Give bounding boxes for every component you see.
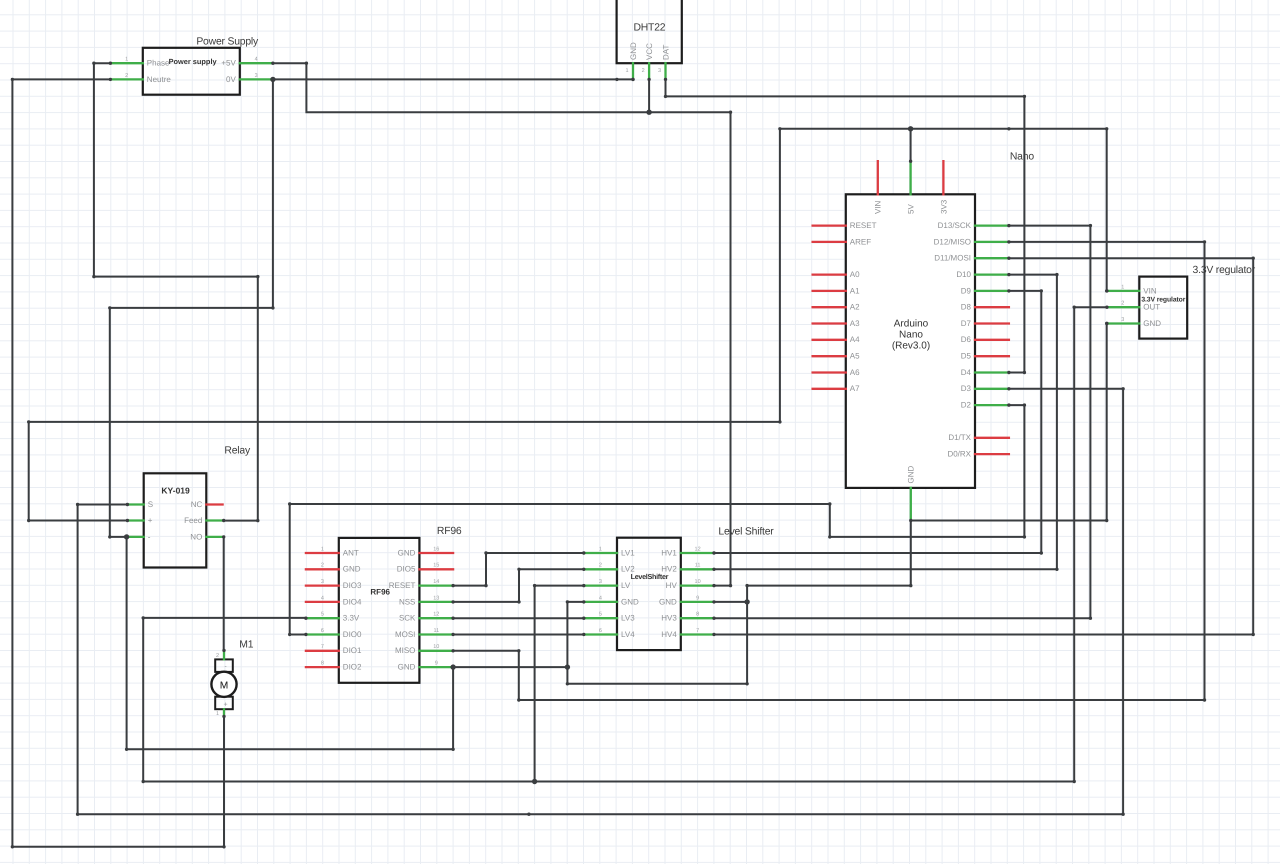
svg-text:D2: D2 <box>961 401 972 410</box>
svg-text:VIN: VIN <box>1143 286 1157 295</box>
svg-text:GND: GND <box>398 663 416 672</box>
svg-text:RF96: RF96 <box>370 588 390 597</box>
svg-text:3: 3 <box>255 73 258 79</box>
svg-text:A4: A4 <box>850 335 860 344</box>
svg-text:GND: GND <box>629 42 638 60</box>
svg-text:1: 1 <box>1121 284 1124 290</box>
svg-text:8: 8 <box>321 661 324 667</box>
svg-text:9: 9 <box>696 595 699 601</box>
svg-text:6: 6 <box>321 628 324 634</box>
svg-text:(Rev3.0): (Rev3.0) <box>892 340 930 351</box>
svg-text:D8: D8 <box>961 303 972 312</box>
svg-text:2: 2 <box>642 68 645 74</box>
svg-text:D4: D4 <box>961 368 972 377</box>
svg-text:2: 2 <box>321 563 324 569</box>
svg-text:ANT: ANT <box>343 548 359 557</box>
svg-text:D6: D6 <box>961 335 972 344</box>
svg-text:DIO3: DIO3 <box>343 581 362 590</box>
svg-text:NO: NO <box>190 532 202 541</box>
svg-text:OUT: OUT <box>1143 303 1160 312</box>
svg-text:NSS: NSS <box>399 597 415 606</box>
svg-text:A3: A3 <box>850 319 860 328</box>
svg-text:+: + <box>148 516 153 525</box>
svg-text:RF96: RF96 <box>437 526 462 537</box>
svg-text:12: 12 <box>433 612 439 618</box>
svg-text:2: 2 <box>599 563 602 569</box>
svg-text:2: 2 <box>216 653 219 659</box>
svg-text:D10: D10 <box>956 270 971 279</box>
svg-text:M1: M1 <box>239 639 253 650</box>
svg-text:MISO: MISO <box>395 646 415 655</box>
svg-text:13: 13 <box>433 595 439 601</box>
svg-text:Power Supply: Power Supply <box>196 36 259 47</box>
svg-text:M: M <box>220 680 228 691</box>
svg-text:Power supply: Power supply <box>169 57 218 66</box>
svg-text:NC: NC <box>191 500 203 509</box>
svg-text:D11/MOSI: D11/MOSI <box>934 254 971 263</box>
svg-text:LV3: LV3 <box>621 614 635 623</box>
svg-text:10: 10 <box>695 579 701 585</box>
svg-text:GND: GND <box>343 565 361 574</box>
svg-text:A1: A1 <box>850 286 860 295</box>
svg-text:15: 15 <box>433 563 439 569</box>
svg-text:D9: D9 <box>961 286 972 295</box>
svg-text:4: 4 <box>599 595 602 601</box>
svg-text:DIO0: DIO0 <box>343 630 362 639</box>
svg-text:1: 1 <box>599 546 602 552</box>
svg-text:Arduino: Arduino <box>894 319 929 330</box>
svg-text:A5: A5 <box>850 352 860 361</box>
svg-text:3V3: 3V3 <box>939 199 948 214</box>
svg-text:GND: GND <box>398 548 416 557</box>
svg-text:3: 3 <box>599 579 602 585</box>
svg-text:VCC: VCC <box>645 43 654 60</box>
svg-text:10: 10 <box>433 644 439 650</box>
svg-text:7: 7 <box>696 628 699 634</box>
svg-text:DAT: DAT <box>661 44 670 60</box>
svg-text:HV4: HV4 <box>661 630 677 639</box>
svg-text:0V: 0V <box>226 75 236 84</box>
svg-text:A7: A7 <box>850 384 860 393</box>
svg-text:D0/RX: D0/RX <box>947 450 971 459</box>
svg-text:3: 3 <box>321 579 324 585</box>
svg-text:3: 3 <box>658 68 661 74</box>
svg-text:DIO1: DIO1 <box>343 646 362 655</box>
svg-text:5V: 5V <box>907 204 916 214</box>
svg-text:DIO2: DIO2 <box>343 663 362 672</box>
svg-text:SCK: SCK <box>399 614 416 623</box>
svg-text:DIO5: DIO5 <box>397 565 416 574</box>
svg-text:A6: A6 <box>850 368 860 377</box>
svg-text:HV3: HV3 <box>661 614 677 623</box>
svg-text:GND: GND <box>1143 319 1161 328</box>
svg-text:HV1: HV1 <box>661 548 677 557</box>
svg-text:1: 1 <box>216 711 219 717</box>
svg-text:LV4: LV4 <box>621 630 635 639</box>
svg-text:D3: D3 <box>961 384 972 393</box>
svg-text:4: 4 <box>255 57 258 63</box>
svg-text:LV: LV <box>621 581 631 590</box>
svg-text:5: 5 <box>599 612 602 618</box>
svg-text:AREF: AREF <box>850 237 871 246</box>
svg-text:Feed: Feed <box>184 516 202 525</box>
svg-text:DHT22: DHT22 <box>633 23 665 34</box>
svg-text:3: 3 <box>1121 317 1124 323</box>
svg-text:D12/MISO: D12/MISO <box>934 237 971 246</box>
svg-text:VIN: VIN <box>874 200 883 214</box>
svg-text:DIO4: DIO4 <box>343 597 362 606</box>
svg-text:14: 14 <box>433 579 439 585</box>
svg-text:2: 2 <box>1121 301 1124 307</box>
svg-text:A2: A2 <box>850 303 860 312</box>
svg-text:+5V: +5V <box>221 59 236 68</box>
svg-text:8: 8 <box>696 612 699 618</box>
svg-text:GND: GND <box>907 466 916 484</box>
svg-text:16: 16 <box>433 546 439 552</box>
svg-text:S: S <box>148 500 153 509</box>
svg-text:1: 1 <box>125 57 128 63</box>
svg-text:3.3V: 3.3V <box>343 614 360 623</box>
svg-text:RESET: RESET <box>389 581 416 590</box>
svg-text:RESET: RESET <box>850 221 877 230</box>
svg-text:3.3V regulator: 3.3V regulator <box>1193 265 1256 276</box>
svg-text:D5: D5 <box>961 352 972 361</box>
svg-text:GND: GND <box>659 597 677 606</box>
svg-text:A0: A0 <box>850 270 860 279</box>
svg-text:D7: D7 <box>961 319 972 328</box>
svg-text:LV1: LV1 <box>621 548 635 557</box>
svg-text:12: 12 <box>695 546 701 552</box>
svg-text:Level Shifter: Level Shifter <box>718 527 774 538</box>
svg-text:7: 7 <box>321 644 324 650</box>
svg-text:5: 5 <box>321 612 324 618</box>
svg-text:D13/SCK: D13/SCK <box>938 221 972 230</box>
svg-text:+: + <box>223 702 227 709</box>
svg-text:Nano: Nano <box>1010 151 1034 162</box>
svg-text:2: 2 <box>125 73 128 79</box>
svg-text:9: 9 <box>435 661 438 667</box>
svg-text:GND: GND <box>621 597 639 606</box>
svg-text:Phase: Phase <box>147 59 170 68</box>
svg-text:LV2: LV2 <box>621 565 635 574</box>
svg-text:D1/TX: D1/TX <box>948 433 971 442</box>
svg-text:11: 11 <box>433 628 439 634</box>
svg-text:-: - <box>148 532 151 541</box>
svg-text:6: 6 <box>599 628 602 634</box>
svg-text:1: 1 <box>625 68 628 74</box>
svg-text:KY-019: KY-019 <box>161 486 190 496</box>
svg-text:4: 4 <box>321 595 324 601</box>
svg-text:Nano: Nano <box>899 329 923 340</box>
svg-text:Relay: Relay <box>224 446 251 457</box>
svg-text:HV2: HV2 <box>661 565 677 574</box>
svg-text:1: 1 <box>321 546 324 552</box>
svg-text:Neutre: Neutre <box>147 75 172 84</box>
svg-text:MOSI: MOSI <box>395 630 415 639</box>
svg-text:HV: HV <box>666 581 678 590</box>
svg-text:11: 11 <box>695 563 701 569</box>
